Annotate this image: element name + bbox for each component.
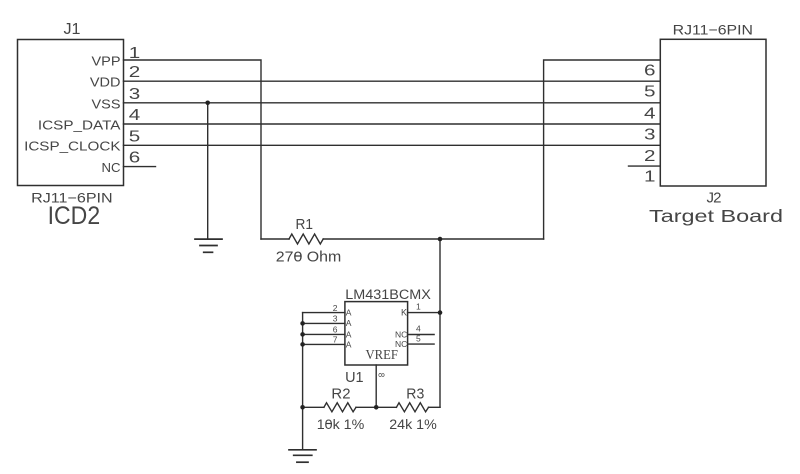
ground symbol bottom xyxy=(289,450,316,462)
wire riser to J2 pin6 xyxy=(544,60,661,239)
svg-text:8: 8 xyxy=(377,373,386,378)
wire R3 right lead xyxy=(429,406,441,408)
svg-text:1: 1 xyxy=(644,169,656,186)
wire U1 pin8 VREF stub xyxy=(375,365,377,407)
svg-text:NC: NC xyxy=(102,160,121,175)
svg-text:3: 3 xyxy=(129,86,141,103)
svg-text:4: 4 xyxy=(644,105,656,122)
svg-text:R1: R1 xyxy=(296,216,314,233)
svg-text:6: 6 xyxy=(644,63,656,80)
wire ICSP_DATA: J1 pin4 to J2 pin3 xyxy=(124,123,661,125)
svg-text:R2: R2 xyxy=(331,387,350,403)
wire NC stub J1 pin6 xyxy=(124,166,156,168)
wire VSS: J1 pin3 to J2 pin4 xyxy=(124,102,661,104)
svg-text:270 Ohm: 270 Ohm xyxy=(276,248,342,265)
ground symbol VSS xyxy=(195,239,222,252)
resistor R2 body xyxy=(324,403,356,412)
wire U1 pin1 K stub xyxy=(408,312,440,314)
svg-text:ICSP_CLOCK: ICSP_CLOCK xyxy=(24,139,121,154)
svg-text:6: 6 xyxy=(333,324,338,334)
svg-text:NC: NC xyxy=(395,339,407,349)
svg-text:VDD: VDD xyxy=(90,75,121,90)
svg-text:2: 2 xyxy=(644,148,656,165)
svg-text:2: 2 xyxy=(129,64,141,81)
svg-text:K: K xyxy=(401,308,407,318)
svg-text:R3: R3 xyxy=(406,387,424,403)
svg-text:4: 4 xyxy=(416,323,421,333)
svg-text:7: 7 xyxy=(333,334,338,344)
wire R2 right lead xyxy=(356,406,376,408)
IC U1 LM431BCMX box xyxy=(345,302,408,365)
svg-text:5: 5 xyxy=(644,84,656,101)
wire U1 pin6 stub xyxy=(303,333,345,335)
wire R3 left lead xyxy=(376,406,396,408)
svg-text:3: 3 xyxy=(644,127,656,144)
junction dot VREF/R2/R3 xyxy=(374,405,379,410)
svg-text:24k 1%: 24k 1% xyxy=(389,416,437,432)
svg-text:5: 5 xyxy=(129,128,141,145)
svg-text:1: 1 xyxy=(129,45,141,62)
svg-text:VPP: VPP xyxy=(92,54,121,69)
R2 value slashed zero xyxy=(326,423,333,425)
wire U1 pin3 stub xyxy=(303,322,345,324)
svg-text:A: A xyxy=(346,329,352,339)
wire VSS drop to ground xyxy=(207,103,209,239)
wire VDD: J1 pin2 to J2 pin5 xyxy=(124,80,661,82)
wire anode bus vertical xyxy=(302,313,304,408)
wire ground stem bottom xyxy=(302,407,304,450)
wire node K vertical x440 xyxy=(439,239,441,407)
wire U1 pin7 stub xyxy=(303,343,345,345)
junction dot K xyxy=(438,310,443,315)
wire VPP: J1 pin1 to corner xyxy=(124,60,262,239)
wire R1 right lead to riser xyxy=(323,238,543,240)
svg-text:VREF: VREF xyxy=(365,348,398,363)
connector J1 box xyxy=(18,40,124,186)
junction dot anode pin3 xyxy=(300,321,305,326)
junction dot anode pin7 xyxy=(300,342,305,347)
R1 value slashed zero xyxy=(295,255,302,257)
junction dot VSS xyxy=(205,101,210,106)
svg-text:J2: J2 xyxy=(707,190,722,207)
svg-text:5: 5 xyxy=(416,333,421,343)
resistor R1 body xyxy=(289,234,323,244)
junction dot R2 left xyxy=(300,405,305,410)
svg-text:NC: NC xyxy=(395,329,407,339)
resistor R3 body xyxy=(396,403,428,412)
svg-text:4: 4 xyxy=(129,107,141,124)
svg-text:2: 2 xyxy=(333,303,338,313)
svg-text:1: 1 xyxy=(416,301,421,311)
svg-text:LM431BCMX: LM431BCMX xyxy=(345,287,431,302)
connector J2 box xyxy=(660,39,766,186)
svg-text:3: 3 xyxy=(333,314,338,324)
svg-text:6: 6 xyxy=(129,150,141,167)
wire U1 pin5 NC stub xyxy=(408,343,435,345)
wire U1 pin2 stub xyxy=(303,312,345,314)
svg-text:ICD2: ICD2 xyxy=(48,203,101,230)
wire J2 pin1 stub xyxy=(629,165,661,167)
svg-text:A: A xyxy=(346,318,352,328)
svg-text:U1: U1 xyxy=(345,369,364,386)
svg-text:ICSP_DATA: ICSP_DATA xyxy=(38,117,121,132)
wire R1 left lead xyxy=(261,238,289,240)
svg-text:Target Board: Target Board xyxy=(649,206,783,226)
svg-text:A: A xyxy=(346,307,352,317)
wire R2 left lead xyxy=(303,406,324,408)
svg-text:A: A xyxy=(346,339,352,349)
svg-text:RJ11−6PIN: RJ11−6PIN xyxy=(673,22,753,38)
junction dot anode pin6 xyxy=(300,332,305,337)
svg-text:10k 1%: 10k 1% xyxy=(317,416,365,432)
wire U1 pin4 NC stub xyxy=(408,334,435,336)
svg-text:VSS: VSS xyxy=(92,96,121,111)
svg-text:J1: J1 xyxy=(64,21,81,38)
wire ICSP_CLOCK: J1 pin5 to J2 pin2 xyxy=(124,144,661,146)
junction dot R1 net xyxy=(438,237,443,242)
